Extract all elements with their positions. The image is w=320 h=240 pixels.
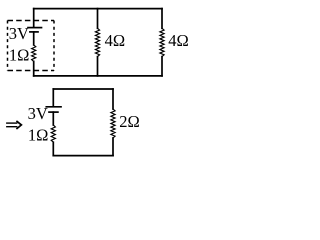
svg-text:1Ω: 1Ω	[9, 46, 30, 65]
resistor 2ohm zigzag	[111, 109, 115, 138]
wire top of lower circuit	[53, 88, 113, 90]
wire between battery and resistor 1ohm lower	[52, 112, 54, 125]
svg-text:2Ω: 2Ω	[119, 112, 140, 131]
wire right branch lower circuit upper stub	[112, 89, 114, 109]
wire left branch upper stub	[33, 9, 35, 27]
dashed box around source	[8, 21, 55, 71]
svg-text:4Ω: 4Ω	[168, 31, 189, 50]
svg-text:3V: 3V	[9, 24, 29, 43]
wire middle branch upper stub	[97, 9, 99, 29]
wire bottom of upper circuit	[34, 75, 162, 77]
wire below 1ohm to bottom	[33, 61, 35, 76]
svg-text:4Ω: 4Ω	[105, 31, 126, 50]
svg-text:3V: 3V	[28, 104, 48, 123]
svg-text:1Ω: 1Ω	[28, 125, 49, 144]
battery 3V lower: short plate	[49, 111, 58, 113]
wire between battery and resistor 1ohm upper	[33, 32, 35, 45]
battery 3V upper: short plate	[30, 31, 38, 33]
battery 3V lower: long plate	[46, 106, 61, 108]
wire right branch upper stub	[161, 9, 163, 29]
resistor 4ohm middle zigzag	[95, 28, 99, 56]
wire middle branch lower stub	[97, 57, 99, 76]
wire right branch lower stub	[161, 57, 163, 76]
wire bottom of lower circuit	[53, 155, 113, 157]
resistor 4ohm right zigzag	[160, 28, 164, 56]
battery 3V upper: long plate	[28, 27, 42, 29]
wire below 1ohm lower	[52, 142, 54, 155]
resistor 1ohm lower zigzag	[51, 125, 55, 142]
wire right branch lower circuit lower stub	[112, 138, 114, 156]
implies arrow	[6, 121, 21, 129]
wire left branch lower circuit upper stub	[52, 89, 54, 106]
resistor 1ohm upper zigzag	[32, 45, 36, 62]
wire top of upper circuit	[34, 8, 162, 10]
